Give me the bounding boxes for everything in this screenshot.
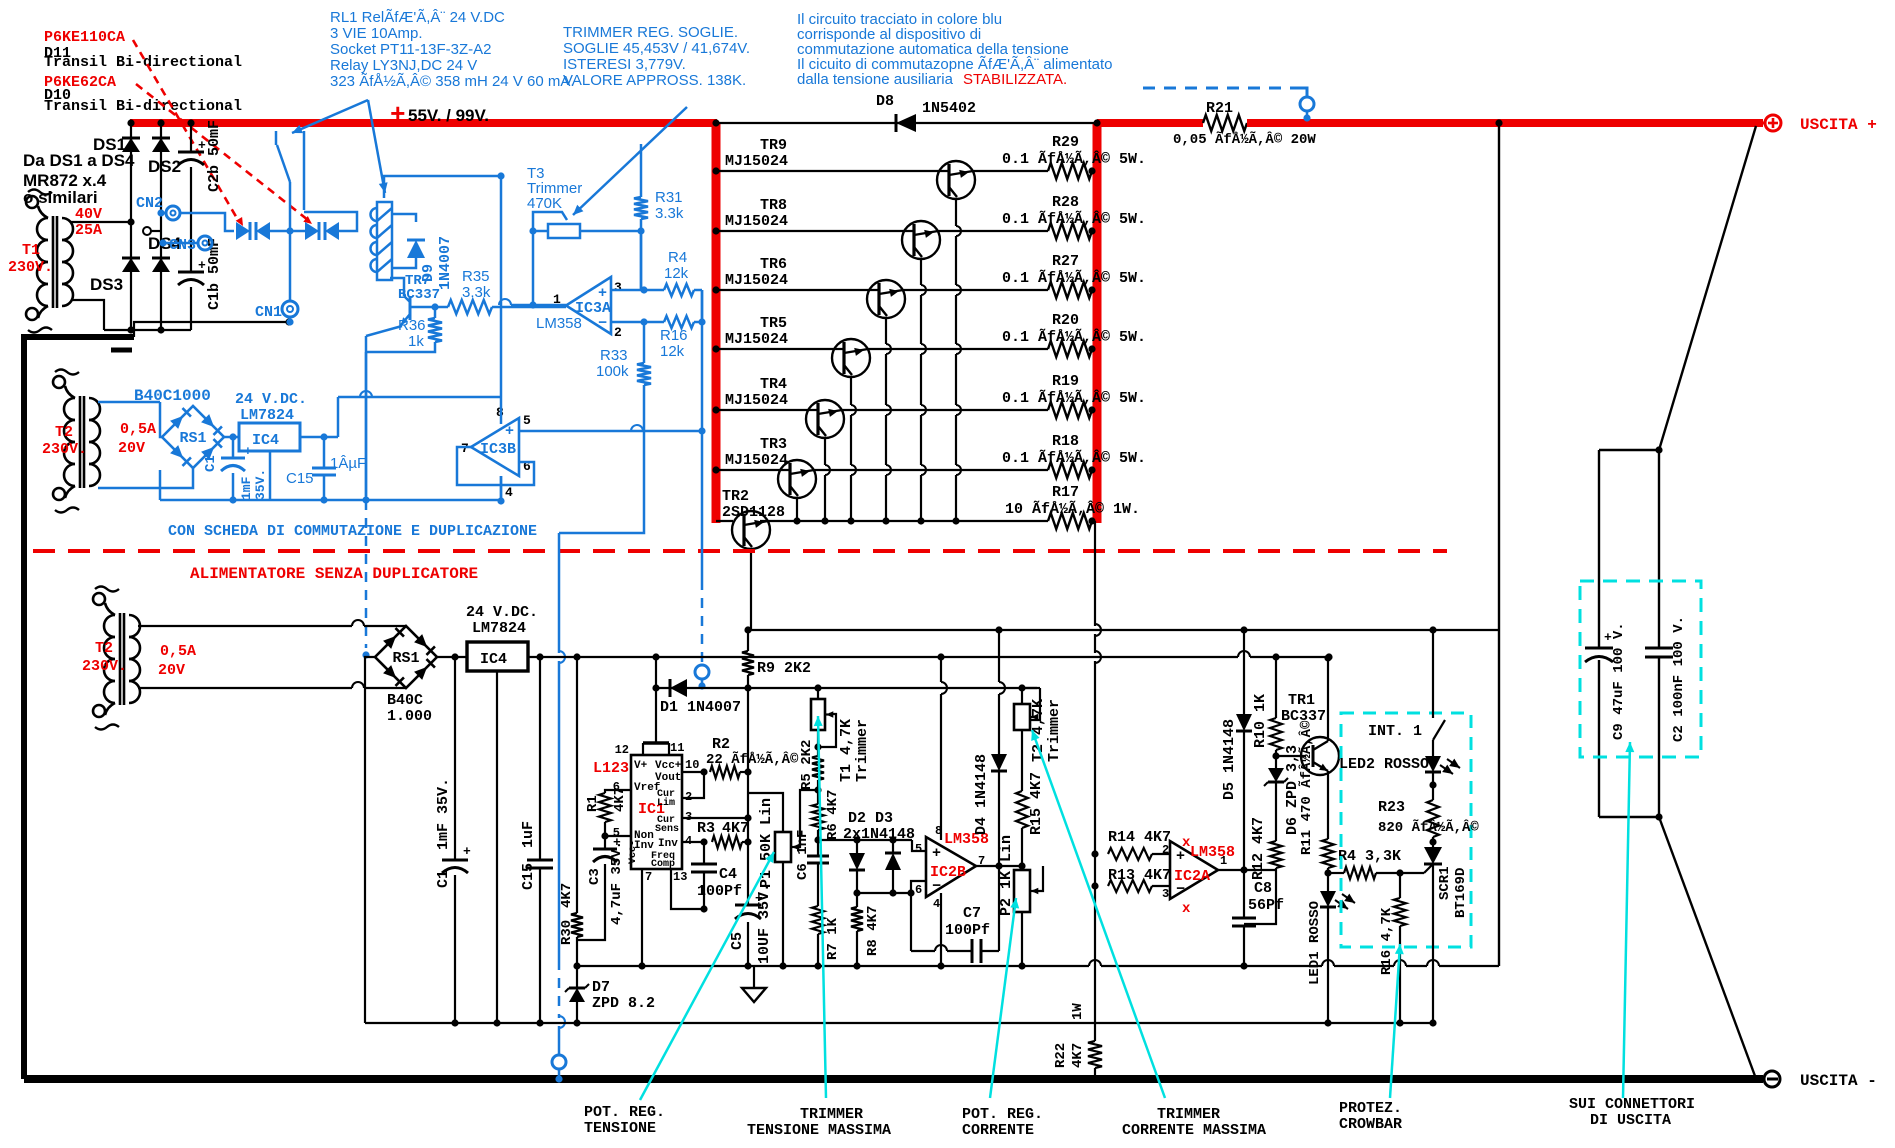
trimmer T2 4,7K <box>1018 684 1025 691</box>
resistor R17 10ohm 1W <box>1048 513 1092 529</box>
svg-text:Socket PT11-13F-3Z-A2: Socket PT11-13F-3Z-A2 <box>330 41 491 58</box>
box PROTEZ CROWBAR cyan dashed <box>1341 713 1471 947</box>
diode D5 1N4148 <box>1243 630 1245 714</box>
wire output sense vertical <box>1498 123 1500 966</box>
svg-text:POT. REG.: POT. REG. <box>962 1106 1043 1123</box>
svg-text:0.1 ÃfÅ½Ã,Â© 5W.: 0.1 ÃfÅ½Ã,Â© 5W. <box>1002 150 1146 168</box>
svg-text:+: + <box>932 845 941 862</box>
svg-text:22 ÃfÅ½Ã,Â©: 22 ÃfÅ½Ã,Â© <box>706 750 799 768</box>
wire rectifier columns <box>130 123 132 330</box>
cyan arrow to P2 <box>990 898 1016 1098</box>
cyan arrow to T2 trimmer <box>1032 730 1165 1098</box>
svg-text:PROTEZ.: PROTEZ. <box>1339 1100 1402 1117</box>
wire R14 R13 column <box>1094 521 1096 626</box>
wire TR2 emitter down <box>750 549 752 630</box>
svg-text:DS2: DS2 <box>148 157 181 176</box>
svg-text:R8 4K7: R8 4K7 <box>865 906 881 956</box>
svg-text:4K7: 4K7 <box>612 787 628 812</box>
svg-text:1k: 1k <box>408 333 424 350</box>
wire pin3 CurSens <box>682 817 748 819</box>
svg-text:R29: R29 <box>1052 134 1079 151</box>
wire output diagonal from USCITA+ <box>1659 126 1756 450</box>
svg-text:R36: R36 <box>398 317 426 334</box>
svg-text:0.1 ÃfÅ½Ã,Â© 5W.: 0.1 ÃfÅ½Ã,Â© 5W. <box>1002 389 1146 407</box>
svg-text:Vcc+: Vcc+ <box>655 760 682 772</box>
wire TR4 emitter to R19 <box>841 409 1048 411</box>
svg-text:TR6: TR6 <box>760 256 787 273</box>
wire blue vertical 366 <box>365 336 368 496</box>
svg-text:MJ15024: MJ15024 <box>725 452 788 469</box>
svg-text:R20: R20 <box>1052 312 1079 329</box>
svg-text:D8: D8 <box>876 93 894 110</box>
blue dashed aux line <box>1143 87 1300 90</box>
svg-text:P2 1K Lin: P2 1K Lin <box>998 835 1015 916</box>
svg-text:ALIMENTATORE SENZA DUPLICATORE: ALIMENTATORE SENZA DUPLICATORE <box>190 565 478 583</box>
svg-text:LM358: LM358 <box>1190 844 1235 861</box>
wire IC1 top supply <box>643 741 669 744</box>
transistor TR5 MJ15024 <box>716 348 844 350</box>
svg-text:STABILIZZATA.: STABILIZZATA. <box>963 71 1067 88</box>
potentiometer P1 50K Lin <box>748 793 783 832</box>
wire TR6 collector down <box>885 318 887 344</box>
wire 24V to IC3B <box>337 397 340 437</box>
resistor R20 0.1ohm 5W <box>1048 341 1092 357</box>
svg-text:CN1: CN1 <box>255 304 282 321</box>
resistor R3 4K7 <box>712 836 742 848</box>
resistor R18 0.1ohm 5W <box>1048 462 1092 478</box>
wire transil to coil <box>304 212 357 231</box>
wire IC4 gnd pin <box>496 671 498 1023</box>
transistor TR2 2SD1128 driver <box>716 520 733 522</box>
wire T1 secondary top <box>71 221 131 223</box>
resistor R16 12k <box>664 316 694 328</box>
wire IC4 gnd <box>269 451 272 500</box>
svg-text:4,7uF 35V.: 4,7uF 35V. <box>609 841 625 925</box>
resistor R33 100k <box>637 363 651 385</box>
transistor TR3 MJ15024 <box>716 469 790 471</box>
wire IC3A out <box>533 304 566 307</box>
diode DS1 <box>122 138 140 152</box>
svg-text:3: 3 <box>614 280 622 295</box>
svg-text:IC2A: IC2A <box>1174 868 1210 885</box>
wire TR4 collector down <box>824 438 826 465</box>
svg-text:1uF: 1uF <box>520 821 537 848</box>
resistor R15 4K7 <box>1021 730 1023 791</box>
svg-text:12k: 12k <box>664 265 689 282</box>
relay contact left <box>275 131 278 145</box>
svg-text:R33: R33 <box>600 347 628 364</box>
bridge RS1 B40C1000 blue <box>162 406 224 468</box>
svg-text:470K: 470K <box>527 195 562 212</box>
svg-text:LED1 ROSSO: LED1 ROSSO <box>1307 901 1323 985</box>
zener D6 ZPD 3,3 <box>1275 756 1277 768</box>
cyan arrow to P1 <box>640 852 774 1100</box>
wire CN1 black return <box>134 322 289 337</box>
transistor TR8 MJ15024 <box>716 230 914 232</box>
svg-text:1mF: 1mF <box>239 476 254 500</box>
no-connect stub <box>143 227 151 235</box>
svg-text:INT. 1: INT. 1 <box>1368 723 1422 740</box>
svg-text:R9 2K2: R9 2K2 <box>757 660 811 677</box>
svg-text:56Pf: 56Pf <box>1248 897 1284 914</box>
transformer T2 main aux <box>104 615 115 637</box>
wire red collector bus left <box>712 123 721 523</box>
svg-text:R35: R35 <box>462 268 490 285</box>
svg-text:R4 3,3K: R4 3,3K <box>1338 848 1401 865</box>
cyan arrow to T1 trimmer <box>818 716 826 1098</box>
svg-text:2: 2 <box>1162 843 1169 857</box>
svg-text:TR2: TR2 <box>722 488 749 505</box>
trimmer T1 4,7K <box>814 684 821 691</box>
diode DS3 <box>122 258 140 272</box>
zener D7 ZPD 8.2 <box>576 966 578 988</box>
svg-text:Sens: Sens <box>655 824 679 835</box>
capacitor C1 1mF 35V blue <box>232 437 235 458</box>
resistor R29 0.1ohm 5W <box>1048 163 1092 179</box>
svg-text:820 ÃfÂ½Ã,Â©: 820 ÃfÂ½Ã,Â© <box>1378 818 1479 836</box>
resistor R36 1k <box>434 307 437 318</box>
capacitor C1 1mF 35V <box>454 657 456 860</box>
svg-text:D2 D3: D2 D3 <box>848 810 893 827</box>
svg-text:R6 4K7: R6 4K7 <box>825 790 841 840</box>
svg-text:20V: 20V <box>158 662 185 679</box>
svg-text:VALORE APPROSS. 138K.: VALORE APPROSS. 138K. <box>563 72 746 89</box>
svg-text:12k: 12k <box>660 343 685 360</box>
wire pin2 CurLim loop <box>682 772 704 798</box>
svg-text:T1 4,7K: T1 4,7K <box>838 719 855 782</box>
transistor TR6 MJ15024 <box>716 289 879 291</box>
cyan arrow to output caps <box>1623 742 1630 1098</box>
svg-text:C1: C1 <box>203 455 219 472</box>
svg-text:4: 4 <box>933 897 940 911</box>
resistor R31 3.3k <box>640 144 643 197</box>
svg-text:0,5A: 0,5A <box>120 421 156 438</box>
capacitor C6 1nF <box>817 840 819 856</box>
svg-text:0.1 ÃfÅ½Ã,Â© 5W.: 0.1 ÃfÅ½Ã,Â© 5W. <box>1002 449 1146 467</box>
svg-text:11: 11 <box>670 741 684 755</box>
cyan arrow to crowbar <box>1390 944 1400 1098</box>
svg-text:ZPD 8.2: ZPD 8.2 <box>592 995 655 1012</box>
svg-text:3 VIE 10Amp.: 3 VIE 10Amp. <box>330 25 423 42</box>
svg-text:R23: R23 <box>1378 799 1405 816</box>
svg-text:100k: 100k <box>596 363 629 380</box>
svg-text:R16 4,7K: R16 4,7K <box>1379 907 1395 975</box>
op-amp IC2A LM358 <box>1170 841 1218 899</box>
wire diagonal to USCITA- <box>1659 817 1755 1076</box>
svg-text:R30: R30 <box>559 920 575 945</box>
wire IC2A out <box>1218 869 1276 871</box>
svg-text:R31: R31 <box>655 189 683 206</box>
svg-text:D4 1N4148: D4 1N4148 <box>973 754 990 835</box>
svg-text:TENSIONE MASSIMA: TENSIONE MASSIMA <box>747 1122 891 1139</box>
svg-text:T2: T2 <box>95 640 113 657</box>
wire aux 24V rail to IC3B <box>500 176 503 397</box>
resistor R8 4K7 <box>856 893 858 907</box>
diode DS4 <box>152 258 170 272</box>
svg-text:1.000: 1.000 <box>387 708 432 725</box>
wire comparator input net <box>818 839 912 841</box>
wire TR8 collector down <box>920 259 922 285</box>
transil pair 1 <box>236 222 250 240</box>
svg-text:POT. REG.: POT. REG. <box>584 1104 665 1121</box>
wire TR3 emitter to R18 <box>813 469 1048 471</box>
regulator IC1 L123 <box>631 755 682 869</box>
svg-text:4K7: 4K7 <box>559 883 575 908</box>
wire blue rail to IC3B pin4 <box>500 476 503 500</box>
svg-text:C1: C1 <box>435 870 452 888</box>
svg-text:R16: R16 <box>660 327 688 344</box>
svg-text:MJ15024: MJ15024 <box>725 272 788 289</box>
svg-text:+: + <box>198 258 206 273</box>
svg-text:TRIMMER: TRIMMER <box>800 1106 863 1123</box>
svg-text:LM7824: LM7824 <box>240 407 294 424</box>
wire TR1 base <box>1276 755 1306 757</box>
svg-text:C9 47uF 100 V.: C9 47uF 100 V. <box>1611 622 1627 740</box>
resistor R9 2K2 <box>747 630 749 651</box>
wire IC3A +in <box>611 289 644 292</box>
svg-text:TRIMMER REG. SOGLIE.: TRIMMER REG. SOGLIE. <box>563 24 738 41</box>
svg-text:1mF 35V.: 1mF 35V. <box>435 778 452 850</box>
svg-text:ISTERESI 3,779V.: ISTERESI 3,779V. <box>563 56 686 73</box>
svg-text:TR4: TR4 <box>760 376 787 393</box>
svg-text:3.3k: 3.3k <box>655 205 684 222</box>
svg-text:R10 1K: R10 1K <box>1252 694 1269 748</box>
svg-text:20V: 20V <box>118 440 145 457</box>
svg-text:55V. / 99V.: 55V. / 99V. <box>408 106 489 125</box>
svg-text:C2 100nF 100 V.: C2 100nF 100 V. <box>1671 616 1687 742</box>
svg-text:3.3k: 3.3k <box>462 284 491 301</box>
red dashed pointer to transil 1 <box>133 40 238 220</box>
svg-text:R17: R17 <box>1052 484 1079 501</box>
svg-text:+: + <box>505 423 514 440</box>
wire D8 branch <box>716 122 1097 124</box>
resistor R23 820 <box>1427 800 1439 837</box>
wire IC3B +in pin5 <box>519 430 701 433</box>
svg-text:RS1: RS1 <box>392 650 419 667</box>
svg-text:RL1 RelÃfÆ'Ã,Â¨ 24 V.DC: RL1 RelÃfÆ'Ã,Â¨ 24 V.DC <box>330 9 505 26</box>
svg-text:10UF 35V.: 10UF 35V. <box>756 883 773 964</box>
svg-text:IC4: IC4 <box>480 651 507 668</box>
svg-text:−: − <box>598 315 607 332</box>
resistor R19 0.1ohm 5W <box>1048 402 1092 418</box>
resistor R27 0.1ohm 5W <box>1048 282 1092 298</box>
svg-text:Trimmer: Trimmer <box>854 719 871 782</box>
svg-text:TENSIONE: TENSIONE <box>584 1120 656 1137</box>
transformer T1 230V <box>37 218 48 240</box>
svg-text:Vcc-: Vcc- <box>628 840 639 864</box>
pointer arrow to T3 <box>573 107 687 215</box>
svg-text:TR5: TR5 <box>760 315 787 332</box>
wire IC2B out <box>976 865 1022 867</box>
pointer arrow to coil wiper <box>368 100 385 193</box>
svg-text:0,05 ÃfÅ½Ã,Â© 20W: 0,05 ÃfÅ½Ã,Â© 20W <box>1173 130 1316 148</box>
svg-text:x: x <box>1182 901 1191 917</box>
resistor R35 3.3k <box>448 300 492 314</box>
svg-text:DS3: DS3 <box>90 275 123 294</box>
ground symbol <box>753 966 755 988</box>
svg-text:T2: T2 <box>55 424 73 441</box>
node feedback column <box>747 688 749 905</box>
svg-text:B40C1000: B40C1000 <box>134 387 211 405</box>
diode D8 1N5402 <box>896 114 916 132</box>
wire pin7 gnd <box>641 869 643 966</box>
rail D1 <box>656 687 1037 689</box>
wire T1 secondary bottom <box>71 300 104 330</box>
svg-text:TR1: TR1 <box>1288 692 1315 709</box>
svg-text:1N4007: 1N4007 <box>437 236 454 290</box>
wire IC2B gnd pin4 <box>940 893 942 966</box>
svg-text:MJ15024: MJ15024 <box>725 392 788 409</box>
wire CN3 node <box>198 236 212 250</box>
resistor R22 4K7 1W <box>1088 1041 1102 1068</box>
separator dashed red line <box>33 549 1447 553</box>
resistor R4 3,3K <box>1328 872 1344 874</box>
wire D2 D3 bottom <box>857 892 911 894</box>
svg-text:B40C: B40C <box>387 692 423 709</box>
resistor R12 4K7 <box>1270 841 1282 868</box>
capacitor C15 1uF <box>539 657 541 860</box>
wire TR8 emitter to R28 <box>937 230 1048 232</box>
svg-text:100Pf: 100Pf <box>945 922 990 939</box>
svg-text:C8: C8 <box>1254 880 1272 897</box>
svg-text:0.1 ÃfÅ½Ã,Â© 5W.: 0.1 ÃfÅ½Ã,Â© 5W. <box>1002 269 1146 287</box>
wire T2 to RS1 blue <box>98 401 160 404</box>
svg-text:1W: 1W <box>1070 1003 1086 1020</box>
wire coil top to aux <box>384 176 501 198</box>
svg-text:CON SCHEDA DI COMMUTAZIONE E D: CON SCHEDA DI COMMUTAZIONE E DUPLICAZION… <box>168 523 537 540</box>
capacitor C1b 50mF <box>178 271 204 274</box>
resistor R21 <box>1203 115 1247 131</box>
svg-text:0,5A: 0,5A <box>160 643 196 660</box>
svg-text:TR9: TR9 <box>760 137 787 154</box>
wire TR9 collector down <box>955 199 957 226</box>
wire TR9 emitter to R29 <box>972 170 1048 172</box>
wire T2 to RS1 <box>138 625 352 627</box>
svg-text:LED2 ROSSO: LED2 ROSSO <box>1339 756 1429 773</box>
svg-text:25A: 25A <box>75 222 102 239</box>
diode DS2 <box>152 138 170 152</box>
svg-text:230V.: 230V. <box>8 259 53 276</box>
wire CN1 node <box>289 231 292 301</box>
resistor R2 22ohm <box>710 766 740 778</box>
svg-text:CN2: CN2 <box>136 195 163 212</box>
diode D3 1N4148 <box>892 840 894 853</box>
wire collector bus TR2 <box>760 520 1048 522</box>
svg-text:CROWBAR: CROWBAR <box>1339 1116 1402 1133</box>
svg-text:+: + <box>463 844 471 859</box>
svg-text:MJ15024: MJ15024 <box>725 153 788 170</box>
svg-text:MJ15024: MJ15024 <box>725 331 788 348</box>
wire blue gnd rail <box>160 499 501 502</box>
transil pair 2 <box>305 222 319 240</box>
svg-text:T1: T1 <box>22 242 40 259</box>
relay coil RL1 <box>377 202 392 280</box>
svg-text:IC3B: IC3B <box>480 441 516 458</box>
svg-text:4K7: 4K7 <box>1070 1043 1086 1068</box>
svg-text:+: + <box>390 100 406 130</box>
wire to capacitor box <box>1599 449 1659 451</box>
svg-text:0.1 ÃfÅ½Ã,Â© 5W.: 0.1 ÃfÅ½Ã,Â© 5W. <box>1002 328 1146 346</box>
rail sense <box>577 965 1089 967</box>
wire TR6 emitter to R27 <box>902 289 1048 291</box>
wire R33 column <box>643 322 646 363</box>
capacitor C3 4,7uF 35V <box>604 836 606 849</box>
svg-text:USCITA +: USCITA + <box>1800 116 1877 134</box>
svg-text:24 V.DC.: 24 V.DC. <box>466 604 538 621</box>
svg-text:+: + <box>198 138 206 153</box>
svg-text:R15 4K7: R15 4K7 <box>1028 772 1045 835</box>
svg-text:323 ÃfÅ½Ã,Â© 358 mH 24 V 60 mA: 323 ÃfÅ½Ã,Â© 358 mH 24 V 60 mA. <box>330 73 575 90</box>
wire TR5 collector down <box>850 377 852 405</box>
svg-text:2: 2 <box>614 325 622 340</box>
rail TR2 emitter <box>748 629 1500 631</box>
resistor R11 470 <box>1322 839 1334 868</box>
svg-text:C5: C5 <box>729 932 746 950</box>
svg-text:SCR1: SCR1 <box>1437 866 1453 900</box>
wire Vout pin10 R2 <box>682 771 704 773</box>
svg-text:V+: V+ <box>634 760 648 772</box>
svg-text:10 ÃfÅ½Ã,Â© 1W.: 10 ÃfÅ½Ã,Â© 1W. <box>1005 500 1140 518</box>
op-amp IC3A LM358 <box>566 277 611 334</box>
svg-text:24 V.DC.: 24 V.DC. <box>235 391 307 408</box>
capacitor C2b 50mF <box>178 151 204 154</box>
svg-text:R3: R3 <box>697 820 715 837</box>
svg-text:BT169D: BT169D <box>1453 868 1469 918</box>
wire IC3B pin4 down <box>500 476 503 501</box>
red dashed pointer to transil 2 <box>136 84 308 220</box>
svg-text:SOGLIE 45,453V / 41,674V.: SOGLIE 45,453V / 41,674V. <box>563 40 750 57</box>
svg-text:R28: R28 <box>1052 194 1079 211</box>
svg-text:3: 3 <box>1162 887 1169 901</box>
svg-text:C4: C4 <box>719 866 737 883</box>
svg-text:100Pf: 100Pf <box>697 883 742 900</box>
wire IC3B pin8 <box>500 397 503 424</box>
svg-text:R11 470 ÃfÂ½Ã,Â©: R11 470 ÃfÂ½Ã,Â© <box>1297 720 1315 855</box>
wire IC3A -in <box>611 321 644 324</box>
wire negative bus (thick black frame) <box>21 334 134 340</box>
svg-text:C2b 50mF: C2b 50mF <box>206 120 223 192</box>
resistor R1 4K7 <box>605 790 631 793</box>
resistor R16 4,7K <box>1399 873 1401 898</box>
svg-text:5: 5 <box>523 413 531 428</box>
svg-text:4: 4 <box>505 485 513 500</box>
wire TR5 emitter to R20 <box>867 348 1048 350</box>
svg-text:1ÂµF: 1ÂµF <box>330 455 366 472</box>
resistor R6 4K7 <box>817 790 819 804</box>
svg-text:C15: C15 <box>520 863 537 890</box>
svg-text:R22: R22 <box>1053 1043 1069 1068</box>
svg-text:IC4: IC4 <box>252 432 279 449</box>
svg-text:R19: R19 <box>1052 373 1079 390</box>
svg-text:DS1: DS1 <box>93 135 126 154</box>
diode D4 1N4148 <box>998 630 1000 682</box>
transistor TR4 MJ15024 <box>716 409 818 411</box>
wire TR7 base R35 <box>410 306 435 309</box>
capacitor C2 100nF 100V <box>1645 647 1673 650</box>
rail 24V <box>528 656 1238 658</box>
svg-text:P6KE110CA: P6KE110CA <box>44 29 125 46</box>
svg-text:+: + <box>598 285 607 302</box>
svg-text:C15: C15 <box>286 470 314 487</box>
transistor TR9 MJ15024 <box>716 170 949 172</box>
resistor R30 4K7 <box>576 657 578 913</box>
wire TR3 collector down <box>796 498 798 521</box>
wire R33 to lower section <box>559 385 644 533</box>
wire T3 down to opamp <box>532 231 535 305</box>
svg-text:10: 10 <box>685 758 699 772</box>
wire TR1 emitter R11 <box>1327 771 1329 839</box>
op-amp IC3B LM358 <box>471 418 519 476</box>
